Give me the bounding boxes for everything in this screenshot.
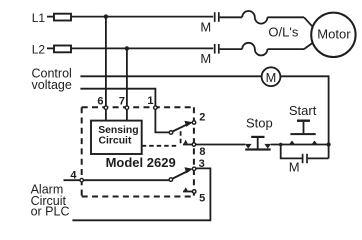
svg-text:Stop: Stop [246,116,273,131]
svg-text:8: 8 [199,146,205,158]
svg-text:M: M [289,160,300,175]
svg-text:L1: L1 [32,11,46,25]
svg-text:or PLC: or PLC [31,205,70,219]
svg-text:2: 2 [199,112,205,124]
svg-text:M: M [266,70,277,85]
svg-text:voltage: voltage [32,78,72,92]
svg-text:M: M [200,19,211,34]
svg-text:7: 7 [119,95,125,107]
svg-text:6: 6 [97,95,103,107]
svg-text:M: M [200,51,211,66]
svg-text:1: 1 [147,95,153,107]
svg-text:Model 2629: Model 2629 [106,155,176,170]
svg-text:Circuit: Circuit [99,135,132,146]
svg-text:4: 4 [70,170,77,182]
svg-text:5: 5 [199,193,205,205]
svg-text:Motor: Motor [317,26,351,41]
svg-text:O/L's: O/L's [268,25,298,40]
svg-text:L2: L2 [32,43,46,57]
svg-text:Start: Start [289,103,317,118]
svg-text:3: 3 [199,158,205,170]
